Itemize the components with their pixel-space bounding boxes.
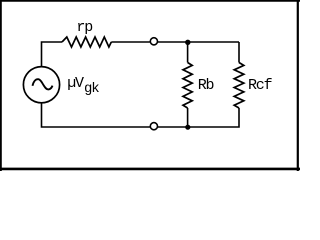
svg-text:Rcf: Rcf [248, 77, 273, 94]
wire: Rb bottom lead [187, 108, 189, 127]
wire: rp to top terminal [111, 41, 150, 43]
wire: Rcf top lead [238, 42, 240, 63]
wire: node B to bottom terminal [158, 126, 188, 128]
voltage source V1 [23, 67, 59, 103]
wire: bottom terminal to source bottom lead [42, 102, 150, 127]
terminal: bottom open circle [150, 123, 157, 130]
svg-text:rp: rp [76, 19, 92, 36]
svg-text:µV: µV [67, 75, 84, 92]
terminal: top open circle [150, 38, 157, 45]
junction node B [185, 125, 190, 130]
resistor Rb [183, 63, 192, 109]
wire: source top lead to top-left corner [42, 42, 63, 67]
resistor rp [62, 37, 111, 47]
wire: Rcf bottom lead and bottom-right corner [188, 108, 239, 127]
junction node A [185, 40, 190, 45]
svg-text:gk: gk [84, 81, 99, 97]
resistor Rcf [234, 63, 244, 109]
wire: Rb top lead [187, 42, 189, 63]
wire: top terminal to node A [158, 41, 188, 43]
label µVgk [67, 75, 99, 97]
svg-text:Rb: Rb [198, 77, 214, 94]
wire: node A to Rcf top corner [188, 41, 239, 43]
